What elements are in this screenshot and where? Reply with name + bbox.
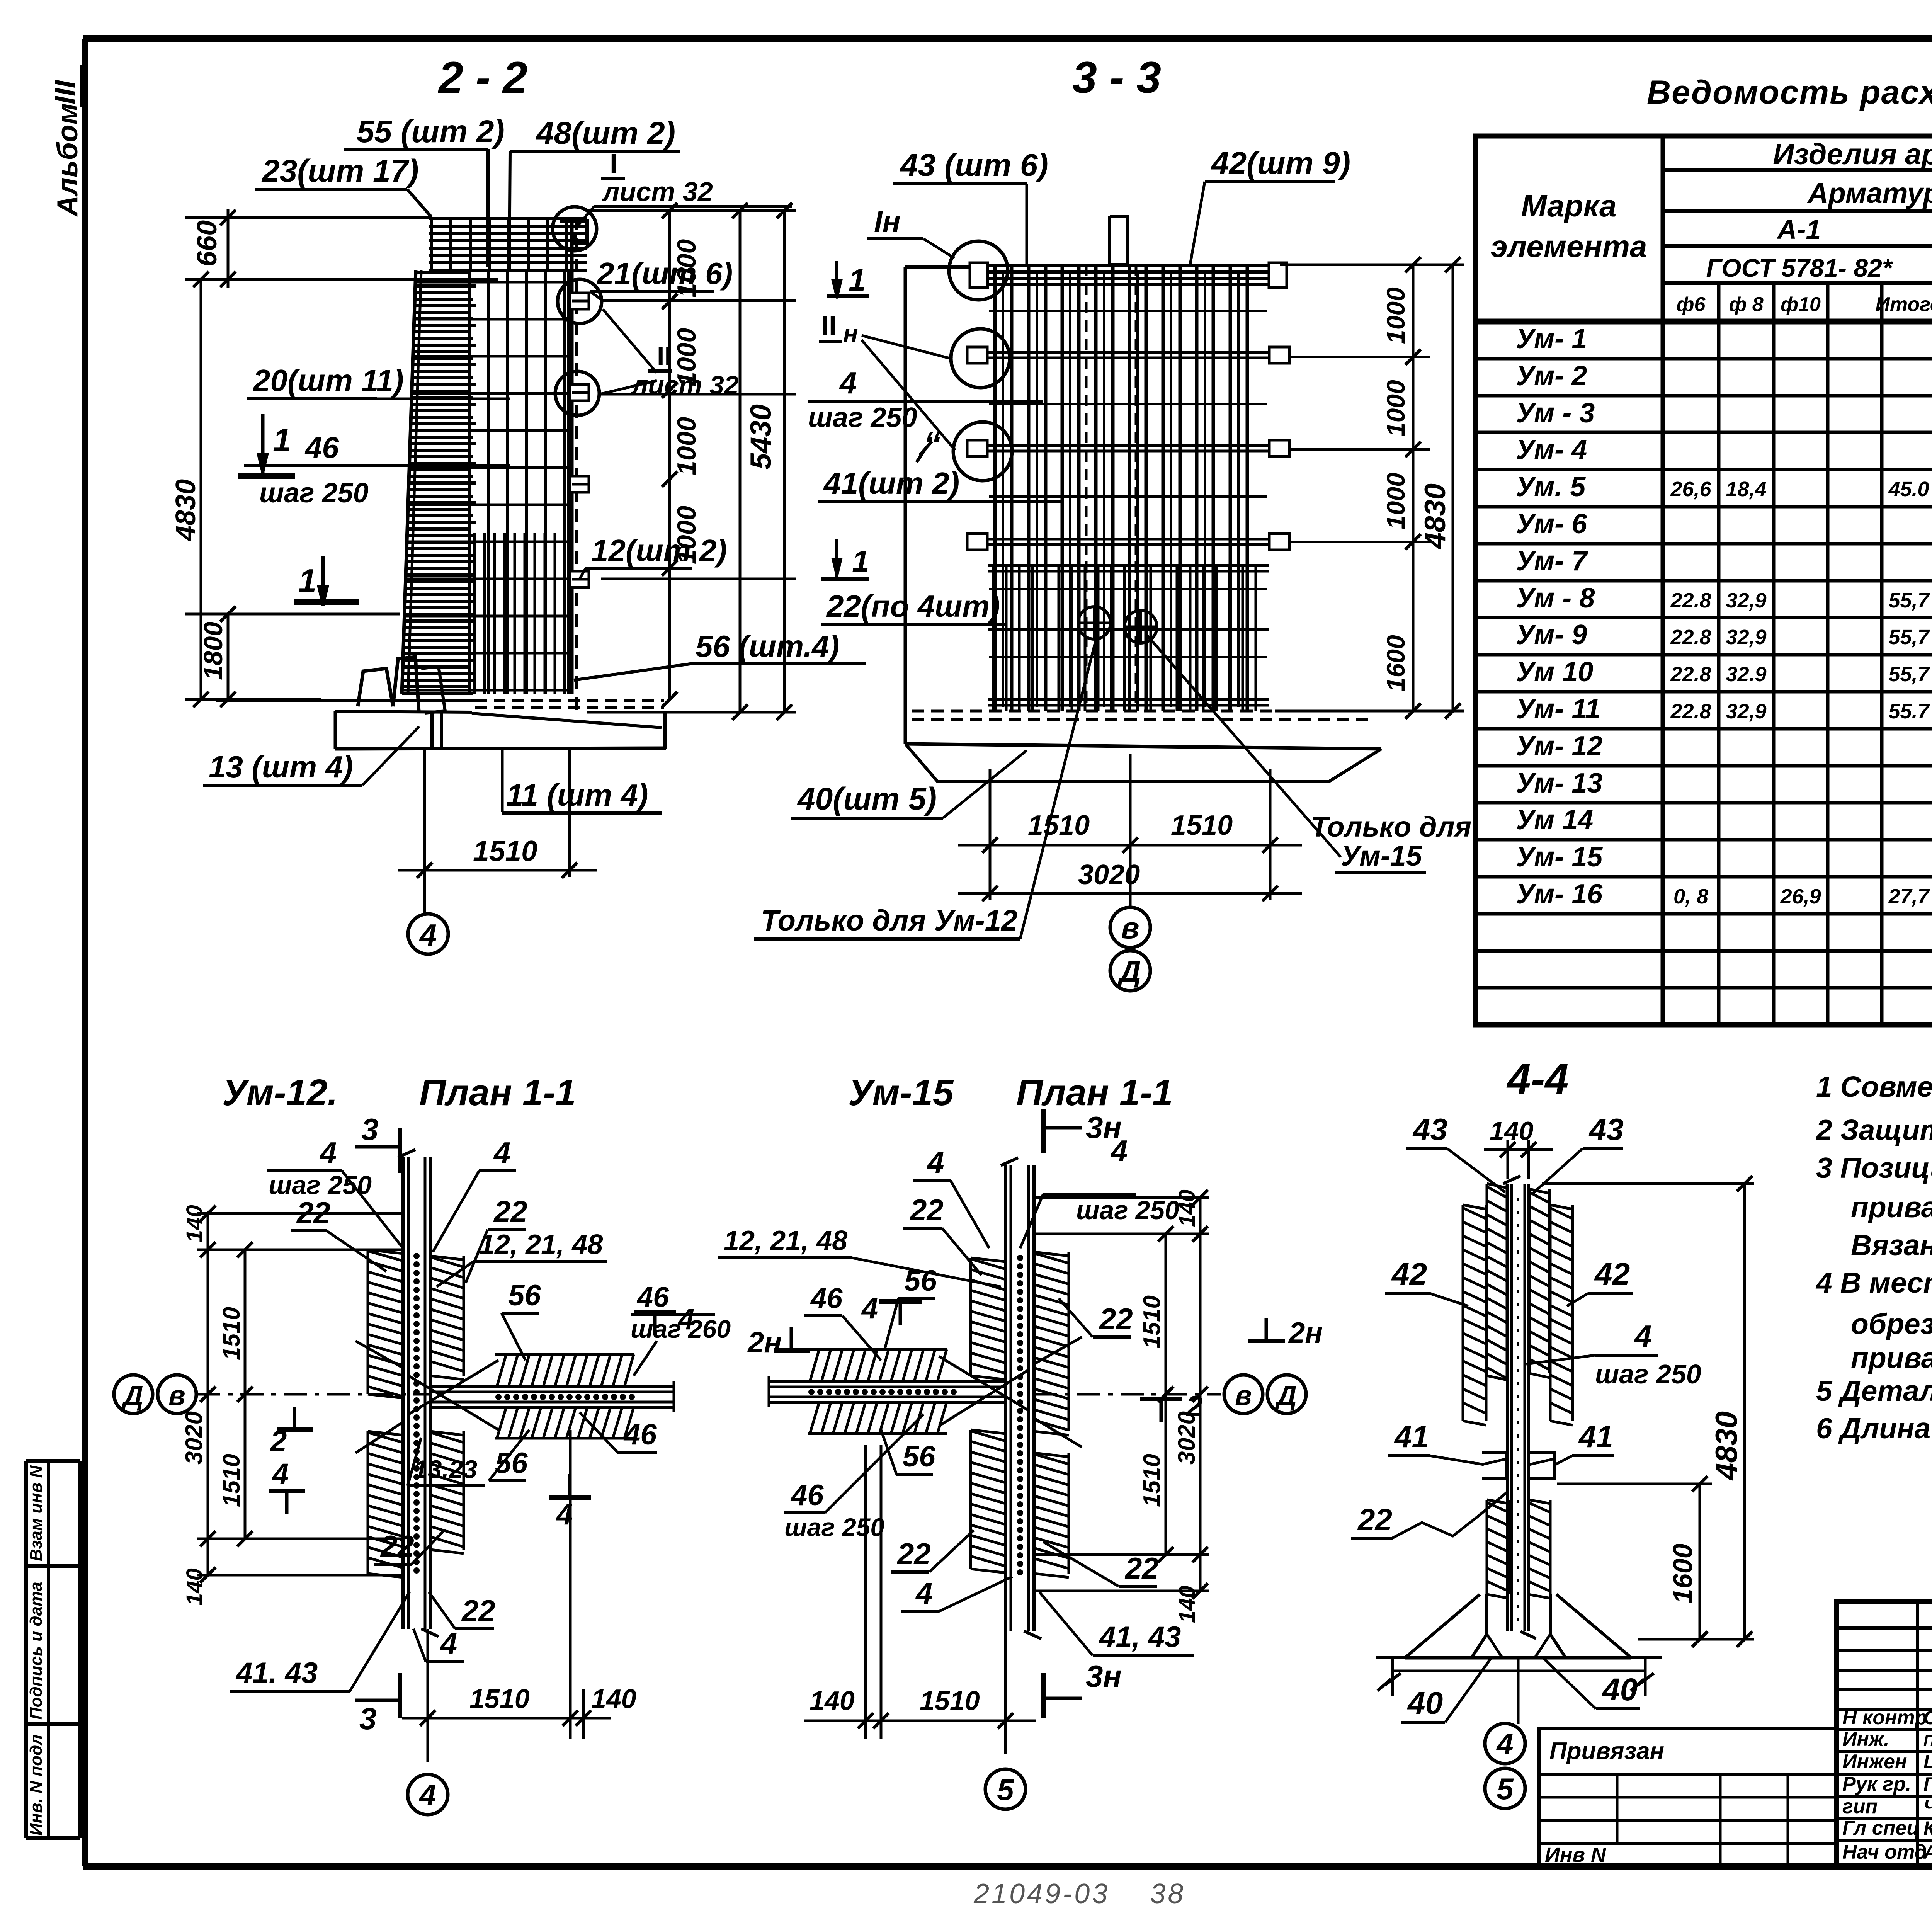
section 3-3 footing	[905, 711, 1381, 781]
plan Ум-12 title	[222, 1072, 576, 1113]
svg-text:660: 660	[192, 220, 223, 267]
svg-text:Итого: Итого	[1876, 293, 1932, 316]
section 2-2 dashed bottom chords	[475, 699, 664, 702]
section 4-4 hatch ladder left inner 43	[1486, 1184, 1488, 1376]
svg-text:46: 46	[636, 1281, 669, 1313]
plan Ум-12 section marks 2 and 4	[269, 1303, 694, 1531]
svg-text:56: 56	[508, 1279, 541, 1312]
title block lower sub table	[1539, 1774, 1837, 1866]
svg-text:Д: Д	[121, 1380, 143, 1411]
section 3-3 label 40 (шт 5)	[791, 750, 1027, 818]
section 2-2 footing outline	[216, 657, 666, 749]
svg-text:Петропавловская: Петропавловская	[1923, 1732, 1932, 1749]
svg-text:шаг 260: шаг 260	[631, 1315, 731, 1343]
svg-text:шаг 250: шаг 250	[1076, 1196, 1179, 1225]
svg-text:21(шт 6): 21(шт 6)	[596, 256, 733, 291]
svg-text:Ум 14: Ум 14	[1516, 805, 1593, 835]
svg-text:11 (шт 4): 11 (шт 4)	[506, 778, 648, 812]
section 4-4 label 43 right	[1532, 1112, 1624, 1194]
svg-text:46: 46	[810, 1282, 843, 1314]
svg-text:3 - 3: 3 - 3	[1072, 53, 1161, 102]
svg-text:1000: 1000	[1381, 473, 1410, 529]
section 2-2 label 11 (шт 4)	[502, 778, 662, 813]
svg-text:ГОСТ 5781- 82*: ГОСТ 5781- 82*	[1706, 253, 1893, 282]
plan Ум-15 strip hatch band upper	[808, 1348, 947, 1351]
plan Ум-15 title	[848, 1072, 1173, 1113]
svg-text:43: 43	[1412, 1112, 1447, 1147]
svg-text:42(шт 9): 42(шт 9)	[1211, 146, 1350, 181]
svg-text:1510: 1510	[1139, 1454, 1165, 1507]
table header grid	[1475, 136, 1932, 1025]
svg-text:Цветкова: Цветкова	[1923, 1751, 1932, 1773]
section 4-4 hatch ladder right outer 42	[1549, 1205, 1552, 1421]
svg-text:55,7: 55,7	[1888, 663, 1930, 686]
plan Ум-12 crossing diagonals at wall junction	[355, 1341, 498, 1453]
plan Ум-15 section marks 3н	[1043, 1109, 1122, 1718]
svg-text:23(шт 17): 23(шт 17)	[261, 153, 419, 189]
table data row lines	[1475, 322, 1932, 1025]
svg-text:22: 22	[1124, 1551, 1159, 1585]
plan Ум-15 right hatch bands	[1033, 1252, 1036, 1431]
svg-text:4 В местах расположения поз: 4 В местах расположения поз , 25” 6 Ум 1…	[1815, 1266, 1932, 1299]
svg-text:III: III	[49, 79, 81, 104]
svg-text:18,4: 18,4	[1726, 478, 1766, 501]
svg-text:26,6: 26,6	[1670, 478, 1711, 501]
plan Ум-12 labels top	[267, 1136, 607, 1287]
plan Ум-15 axis line and circles В Д	[1034, 1375, 1306, 1414]
section 2-2 label 48 (шт 2)	[509, 116, 680, 272]
svg-text:40: 40	[1407, 1686, 1443, 1721]
section 3-3 left studs	[967, 263, 988, 550]
svg-text:2н: 2н	[1288, 1317, 1323, 1349]
section 4-4 lower hatch bands 22	[1486, 1500, 1488, 1594]
plan Ум-15 labels bottom	[891, 1530, 1194, 1655]
section 2-2 label 12 (шт 2)	[580, 533, 796, 579]
section 3-3 label 22 (по 4шт)	[821, 589, 1005, 624]
svg-text:4: 4	[927, 1145, 944, 1179]
svg-text:Арматура класса: Арматура класса	[1807, 177, 1932, 209]
section 2-2 dimension 4830 left	[170, 272, 321, 707]
svg-text:Iн: Iн	[874, 204, 901, 238]
section 3-3 top horizontal mesh band	[977, 265, 1280, 288]
svg-text:А-1: А-1	[1777, 214, 1821, 245]
plan Ум-12 central wall	[398, 1150, 439, 1637]
section 4-4 label 41 right	[1555, 1419, 1614, 1465]
svg-text:2н: 2н	[747, 1326, 782, 1359]
svg-text:Взам инв N: Взам инв N	[27, 1465, 46, 1561]
svg-text:1600: 1600	[1381, 635, 1410, 692]
svg-text:шаг 250: шаг 250	[1595, 1359, 1701, 1389]
section 4-4 level 41 inserts	[1482, 1452, 1554, 1479]
svg-text:Гарбуз: Гарбуз	[1923, 1773, 1932, 1795]
section 2-2 bottom dimension 1510	[398, 748, 597, 914]
section 2-2 callout II лист 32	[598, 309, 796, 400]
svg-text:3: 3	[359, 1701, 377, 1736]
section 3-3 wall outline	[905, 267, 978, 744]
svg-text:22: 22	[909, 1193, 944, 1227]
section 3-3 callout Iн	[867, 204, 954, 258]
title block stamp labels and names	[1842, 1706, 1932, 1863]
svg-text:1000: 1000	[1381, 287, 1410, 344]
title block outer box	[1837, 1602, 1932, 1866]
svg-text:1: 1	[849, 263, 866, 297]
section 4-4 axis circles 4 and 5	[1485, 1658, 1525, 1808]
svg-text:Инжен: Инжен	[1842, 1751, 1907, 1773]
plan Ум-12 strip hatch band lower	[495, 1406, 634, 1409]
svg-text:3020: 3020	[181, 1411, 207, 1465]
section 3-3 overall dimension 4830	[1419, 257, 1461, 719]
svg-text:43: 43	[1588, 1112, 1624, 1147]
svg-text:Ум- 7: Ум- 7	[1516, 546, 1588, 577]
svg-text:1: 1	[273, 422, 291, 459]
svg-text:Ум- 13: Ум- 13	[1516, 768, 1602, 799]
svg-text:ф 8: ф 8	[1729, 293, 1763, 316]
svg-text:22: 22	[493, 1194, 527, 1228]
svg-text:Ум- 2: Ум- 2	[1516, 361, 1587, 391]
svg-text:46: 46	[304, 430, 339, 464]
section 3-3 bottom dimensions 1510 1510 3020	[958, 754, 1302, 906]
svg-text:22: 22	[896, 1537, 931, 1571]
svg-text:приварить к поз „ 20, 21 42 43: приварить к поз „ 20, 21 42 43” остальны…	[1851, 1191, 1932, 1223]
svg-text:Инв N: Инв N	[1545, 1843, 1606, 1866]
section 3-3 stud detail circles	[949, 241, 1008, 300]
svg-text:Ум- 9: Ум- 9	[1516, 619, 1587, 650]
section 2-2 right dimension chain 1000 steps	[587, 203, 796, 707]
svg-text:41, 43: 41, 43	[1099, 1621, 1181, 1654]
svg-text:лист 32: лист 32	[631, 371, 739, 400]
svg-text:Подпись и дата: Подпись и дата	[27, 1582, 46, 1720]
svg-text:1510: 1510	[1139, 1295, 1165, 1349]
svg-text:32,9: 32,9	[1726, 589, 1766, 612]
svg-text:Чирков: Чирков	[1923, 1796, 1932, 1817]
svg-text:27,7: 27,7	[1888, 885, 1930, 908]
svg-text:Д: Д	[1117, 954, 1141, 988]
section 3-3 horizontal bars at stud levels	[983, 311, 1274, 657]
svg-text:22: 22	[380, 1529, 414, 1563]
plan Ум-12 labels bottom	[230, 1529, 495, 1691]
plan Ум-15 section marks 2н and 4	[747, 1292, 1323, 1423]
svg-text:5: 5	[1497, 1772, 1514, 1806]
svg-text:Инв. N подл: Инв. N подл	[27, 1734, 46, 1836]
svg-text:ф10: ф10	[1781, 293, 1821, 316]
svg-text:32,9: 32,9	[1726, 700, 1766, 723]
svg-text:21049-03 38: 21049-03 38	[973, 1878, 1185, 1909]
svg-text:4: 4	[493, 1136, 510, 1170]
svg-text:гип: гип	[1842, 1795, 1878, 1818]
table outer border	[1475, 136, 1932, 1025]
plan Ум-12 axis line and circles Д В	[114, 1375, 430, 1414]
svg-text:Ум- 6: Ум- 6	[1516, 509, 1587, 539]
section 3-3 callout IIн	[819, 311, 955, 450]
svg-text:56: 56	[903, 1440, 935, 1473]
svg-text:1510: 1510	[473, 835, 537, 867]
section 4-4 label 4 шаг 250	[1526, 1319, 1701, 1389]
svg-text:Н контр: Н контр	[1842, 1706, 1927, 1729]
svg-text:Ум 10: Ум 10	[1516, 657, 1593, 687]
svg-text:22: 22	[296, 1196, 330, 1230]
svg-text:42: 42	[1391, 1257, 1427, 1292]
plan Ум-15 strip hatch band lower	[808, 1401, 947, 1404]
svg-text:3: 3	[361, 1112, 379, 1147]
section 3-3 vertical rebar grid	[995, 265, 1247, 711]
svg-text:элемента: элемента	[1491, 229, 1647, 264]
section 4-4 label 42 left	[1385, 1257, 1468, 1306]
title block attachment box Привязан	[1539, 1728, 1837, 1774]
svg-text:3н: 3н	[1086, 1659, 1122, 1693]
svg-text:План 1-1: План 1-1	[419, 1072, 576, 1113]
svg-text:22: 22	[461, 1594, 495, 1628]
svg-text:13 (шт 4): 13 (шт 4)	[209, 750, 353, 784]
svg-text:1510: 1510	[1028, 810, 1090, 841]
section 2-2 label 55 (шт 2)	[344, 114, 505, 267]
section 3-3 label 41 (шт 2)	[818, 466, 1063, 502]
svg-text:56 (шт.4): 56 (шт.4)	[696, 629, 839, 663]
svg-text:12, 21, 48: 12, 21, 48	[479, 1229, 603, 1260]
svg-text:140: 140	[182, 1205, 207, 1242]
plan Ум-15 axis circle 5	[985, 1769, 1026, 1809]
table data values	[1516, 321, 1932, 911]
svg-text:42: 42	[1594, 1257, 1630, 1292]
svg-text:Ум- 4: Ум- 4	[1516, 434, 1587, 465]
svg-text:41: 41	[1578, 1419, 1613, 1454]
plan Ум-15 right dimensions 140 1510 3020 1510 140	[1034, 1189, 1209, 1623]
svg-text:13.23: 13.23	[413, 1455, 477, 1483]
svg-text:1 Совместно с данным см: 1 Совместно с данным см л л КЖ- 24, 25, …	[1816, 1070, 1932, 1103]
svg-text:Альтшуллер: Альтшуллер	[1923, 1841, 1932, 1863]
section 2-2 top mesh grid	[429, 217, 587, 270]
svg-text:1510: 1510	[218, 1307, 245, 1360]
svg-text:41(шт 2): 41(шт 2)	[823, 466, 959, 500]
svg-text:140: 140	[1490, 1116, 1534, 1146]
svg-text:Ум- 16: Ум- 16	[1516, 879, 1603, 910]
svg-text:Альбом: Альбом	[51, 103, 83, 217]
section 4-4 dimension 4830	[1542, 1176, 1754, 1647]
plan Ум-15 left hatch bands	[969, 1258, 972, 1376]
svg-text:Ум-15: Ум-15	[848, 1072, 954, 1113]
section 3-3 section mark 1 with arrow upper	[827, 261, 869, 298]
svg-text:Марка: Марка	[1521, 189, 1617, 223]
plan Ум-12 right hatch bands	[429, 1256, 432, 1376]
section 2-2 label 46 шаг 250	[244, 430, 510, 509]
section 2-2 section mark 1 upper	[238, 414, 295, 476]
svg-text:48(шт 2): 48(шт 2)	[536, 116, 675, 151]
svg-text:Ум- 15: Ум- 15	[1516, 842, 1603, 873]
svg-text:Ум-15: Ум-15	[1341, 840, 1423, 872]
section 2-2 label 56 (шт 4)	[574, 629, 866, 680]
svg-text:40: 40	[1602, 1672, 1638, 1707]
plan Ум-12 left hatch bands	[367, 1250, 369, 1394]
plan Ум-12 section marks 3	[355, 1112, 400, 1736]
svg-text:5430: 5430	[745, 404, 777, 470]
svg-text:Д: Д	[1274, 1380, 1297, 1411]
svg-text:1510: 1510	[218, 1454, 245, 1507]
section 3-3 label Только для Ум-12	[754, 637, 1097, 939]
svg-text:Привязан: Привязан	[1549, 1738, 1664, 1764]
svg-text:0, 8: 0, 8	[1673, 885, 1708, 908]
section 4-4 label 40 right	[1544, 1659, 1640, 1709]
plan Ум-12 wall dot row	[413, 1253, 420, 1574]
svg-text:4: 4	[1110, 1134, 1128, 1168]
svg-text:в: в	[168, 1380, 185, 1411]
svg-text:45.0: 45.0	[1888, 478, 1929, 501]
svg-text:4: 4	[1634, 1319, 1652, 1353]
svg-text:4: 4	[418, 1778, 436, 1812]
section 3-3 label 42 (шт 9)	[1190, 146, 1350, 265]
svg-text:1600: 1600	[1668, 1543, 1698, 1604]
svg-text:22: 22	[1357, 1502, 1392, 1537]
svg-text:1510: 1510	[920, 1686, 980, 1716]
svg-text:Ведомость расхода стали на: Ведомость расхода стали на элемент, кг	[1647, 74, 1932, 111]
svg-text:Только для Ум-12: Только для Ум-12	[761, 904, 1017, 937]
svg-text:Ум - 8: Ум - 8	[1516, 583, 1595, 614]
section 2-2 dimension 1800 left	[185, 606, 400, 707]
svg-text:1510: 1510	[469, 1684, 530, 1714]
plan Ум-12 axis circle 4	[408, 1774, 448, 1815]
svg-text:4830: 4830	[170, 479, 201, 542]
plan Ум-12 horizontal rebar strip	[430, 1381, 674, 1412]
section 3-3 right dimension chain 1000 and 1600	[1275, 257, 1464, 719]
svg-text:1: 1	[298, 563, 316, 599]
svg-text:“: “	[923, 425, 941, 464]
plan Ум-15 labels middle	[784, 1264, 937, 1541]
svg-text:Гл спец: Гл спец	[1842, 1817, 1920, 1839]
section 3-3 top chimney bar	[1110, 216, 1127, 265]
section 3-3 dashed verticals	[1085, 265, 1088, 711]
svg-text:Ум-12.: Ум-12.	[222, 1072, 338, 1113]
section 2-2 label 20 (шт 11)	[247, 363, 510, 399]
svg-text:Ум- 1: Ум- 1	[1516, 323, 1587, 354]
svg-text:н: н	[843, 320, 858, 347]
svg-text:II: II	[821, 311, 837, 342]
svg-text:22.8: 22.8	[1670, 700, 1711, 723]
svg-text:1000: 1000	[672, 417, 701, 475]
section 2-2 callout I лист 32	[575, 148, 792, 229]
svg-text:56: 56	[904, 1264, 937, 1297]
svg-text:1510: 1510	[1171, 810, 1233, 841]
left margin rotated text Альбом III	[49, 63, 87, 217]
svg-text:2: 2	[270, 1425, 287, 1458]
section 4-4 hatch ladder left outer 42	[1462, 1205, 1464, 1421]
left margin stamp boxes	[26, 1461, 80, 1838]
svg-text:5: 5	[997, 1773, 1014, 1807]
section 4-4 label 42 right	[1567, 1257, 1633, 1306]
svg-text:4: 4	[556, 1498, 573, 1531]
section 2-2 overall dimension 5430	[587, 203, 796, 720]
section 4-4 label 40 left	[1401, 1659, 1491, 1722]
svg-text:55 (шт 2): 55 (шт 2)	[357, 114, 505, 149]
plan Ум-12 left dimensions 140 1510 3020 1510 140	[181, 1205, 403, 1606]
plan Ум-15 horizontal rebar strip	[769, 1376, 1005, 1407]
plan Ум-15 crossing diagonals at wall junction	[939, 1337, 1082, 1447]
svg-text:лист 32: лист 32	[602, 177, 713, 207]
svg-text:Ум- 12: Ум- 12	[1516, 731, 1602, 762]
svg-text:26,9: 26,9	[1780, 885, 1821, 908]
section 2-2 axis circle 4	[408, 914, 448, 954]
svg-text:22.8: 22.8	[1670, 626, 1711, 649]
svg-text:12(шт 2): 12(шт 2)	[591, 533, 727, 568]
plan Ум-12 strip hatch band upper	[495, 1353, 634, 1356]
svg-text:1000: 1000	[1381, 380, 1410, 437]
svg-text:Ум. 5: Ум. 5	[1516, 471, 1586, 502]
svg-text:обрезать по месту и концы: обрезать по месту и концы обрезаннои арм…	[1851, 1308, 1932, 1340]
plan Ум-12 bottom dimension 1510 140	[402, 1430, 636, 1762]
svg-text:4: 4	[319, 1136, 337, 1170]
svg-text:4-4: 4-4	[1507, 1055, 1569, 1103]
section 4-4 label 41 left	[1388, 1419, 1484, 1465]
svg-text:I: I	[610, 148, 617, 179]
svg-text:4: 4	[419, 918, 437, 952]
svg-text:шаг 250: шаг 250	[784, 1513, 884, 1541]
svg-text:5 Деталь армирования отверст: 5 Деталь армирования отверстии см л КЖ- …	[1816, 1375, 1932, 1407]
svg-text:32.9: 32.9	[1726, 663, 1766, 686]
section 4-4 bottom dimension line with break marks	[1378, 1658, 1654, 1696]
svg-text:3020: 3020	[1078, 859, 1140, 890]
svg-text:22.8: 22.8	[1670, 663, 1711, 686]
svg-text:22(по 4шт): 22(по 4шт)	[826, 589, 1000, 623]
svg-text:46: 46	[790, 1479, 824, 1512]
section 4-4 dimension 140 top	[1484, 1116, 1553, 1179]
section 3-3 label Только для Ум-15	[1146, 634, 1471, 873]
svg-text:Семенова: Семенова	[1923, 1707, 1932, 1728]
svg-text:40(шт 5): 40(шт 5)	[797, 781, 937, 817]
svg-text:2 - 2: 2 - 2	[438, 53, 527, 102]
section 2-2 wall rebar cage	[402, 217, 577, 712]
svg-text:140: 140	[810, 1686, 855, 1716]
section 3-3 label 43 (шт 6)	[893, 148, 1048, 265]
svg-text:4830: 4830	[1709, 1411, 1743, 1481]
svg-text:Ум - 3: Ум - 3	[1516, 398, 1595, 429]
svg-text:в: в	[1235, 1380, 1252, 1411]
plan Ум-15 wall dot row	[1017, 1255, 1023, 1575]
svg-text:Вязаные: Вязаные	[1851, 1229, 1932, 1261]
svg-text:22.8: 22.8	[1670, 589, 1711, 612]
svg-text:43 (шт 6): 43 (шт 6)	[900, 148, 1048, 183]
section 4-4 footing	[1376, 1594, 1662, 1658]
svg-text:12, 21, 48: 12, 21, 48	[724, 1225, 847, 1256]
svg-text:Ум- 11: Ум- 11	[1516, 694, 1600, 725]
svg-text:6 Длина поз „ 11, 12, 20: 6 Длина поз „ 11, 12, 20 21’ уточняется …	[1816, 1412, 1932, 1444]
svg-text:55.7: 55.7	[1888, 700, 1930, 723]
section 4-4 hatch ladder right inner 43	[1528, 1189, 1531, 1373]
plan Ум-15 bottom dimension 140 1510	[804, 1445, 1036, 1754]
svg-text:в: в	[1121, 911, 1139, 945]
svg-text:Изделия арматурные: Изделия арматурные	[1773, 138, 1932, 171]
table header texts	[1491, 138, 1932, 321]
notes list	[1815, 1070, 1932, 1444]
section 2-2 detail circles I and II	[553, 207, 597, 251]
svg-text:2 Защитныи слои бетона -: 2 Защитныи слои бетона - 20 мм	[1815, 1114, 1932, 1146]
section 3-3 bottom dense vertical bars	[988, 565, 1269, 711]
plan Ум-12 labels middle	[408, 1279, 731, 1486]
svg-text:Рук гр.: Рук гр.	[1842, 1773, 1911, 1795]
svg-text:55,7: 55,7	[1888, 626, 1930, 649]
svg-text:ф6: ф6	[1677, 293, 1706, 316]
svg-text:4: 4	[915, 1576, 932, 1610]
svg-text:шаг 250: шаг 250	[259, 478, 369, 509]
svg-text:шаг 250: шаг 250	[808, 402, 917, 433]
svg-text:Только для: Только для	[1311, 811, 1471, 843]
svg-text:приварить к поз „ 25’: приварить к поз „ 25’	[1851, 1342, 1932, 1374]
section 3-3 opening circles for Ум-12 Ум-15	[1078, 607, 1157, 643]
svg-text:20(шт 11): 20(шт 11)	[252, 363, 404, 398]
svg-text:140: 140	[591, 1684, 636, 1714]
svg-text:41. 43: 41. 43	[235, 1657, 318, 1689]
svg-text:41: 41	[1394, 1419, 1429, 1454]
svg-text:4: 4	[440, 1626, 457, 1660]
svg-text:4: 4	[839, 366, 857, 400]
section 2-2 label 23 (шт 17)	[255, 153, 432, 217]
svg-text:Инж.: Инж.	[1842, 1728, 1889, 1751]
